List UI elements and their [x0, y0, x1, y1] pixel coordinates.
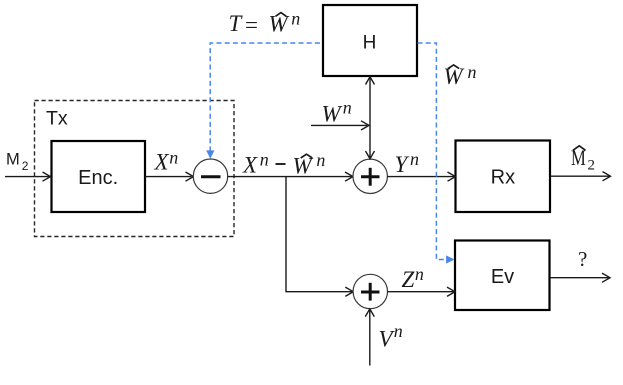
block Rx: [456, 141, 551, 213]
block Enc.: [52, 141, 146, 212]
blue dashed feedback H to Ev: [418, 43, 447, 260]
svg-text:H: H: [363, 32, 377, 53]
wire H to upper plus node (double arrow): [369, 78, 371, 158]
svg-text:W: W: [269, 12, 290, 37]
svg-text:X: X: [154, 150, 170, 175]
node minus circle: [193, 159, 227, 193]
wire Wn into vertical line: [311, 124, 367, 126]
svg-text:n: n: [415, 264, 424, 284]
svg-text:Enc.: Enc.: [78, 167, 118, 189]
svg-text:2: 2: [588, 158, 596, 174]
svg-text:Rx: Rx: [491, 167, 515, 189]
svg-text:n: n: [468, 62, 477, 82]
wire Vn into lower plus node: [369, 311, 371, 366]
block Ev: [455, 241, 550, 311]
wire M2 input to Enc: [5, 176, 49, 178]
dashed Tx enclosure box: [35, 101, 235, 237]
svg-text:n: n: [343, 98, 352, 118]
svg-text:?: ?: [578, 247, 587, 271]
svg-text:Ev: Ev: [491, 266, 514, 288]
svg-text:n: n: [394, 321, 403, 341]
node plus circle lower: [353, 274, 387, 308]
svg-text:T: T: [229, 11, 244, 36]
node plus circle upper: [353, 159, 387, 193]
svg-text:2: 2: [22, 159, 29, 173]
wire junction branch down to lower plus node: [286, 177, 352, 292]
svg-text:n: n: [410, 149, 419, 169]
svg-text:n: n: [316, 150, 325, 170]
svg-text:n: n: [169, 148, 178, 168]
svg-text:X: X: [242, 153, 258, 178]
svg-text:n: n: [260, 150, 269, 170]
svg-text:n: n: [291, 9, 300, 29]
wire Rx output: [551, 175, 610, 177]
svg-text:W: W: [444, 64, 465, 89]
svg-text:M: M: [6, 151, 20, 169]
wire Ev output: [550, 277, 609, 279]
svg-text:=: =: [245, 12, 258, 37]
svg-text:W: W: [322, 101, 343, 126]
svg-text:Z: Z: [402, 267, 415, 292]
wire lower plus node to Ev: [388, 291, 454, 293]
wire minus node to plus node: [227, 176, 351, 178]
svg-text:Tx: Tx: [46, 108, 68, 130]
blue dashed feedback into minus node: [210, 43, 322, 152]
block H: [323, 5, 417, 76]
wire upper plus node to Rx: [387, 176, 454, 178]
svg-text:Y: Y: [395, 152, 410, 177]
wire Enc to minus node: [145, 176, 192, 178]
